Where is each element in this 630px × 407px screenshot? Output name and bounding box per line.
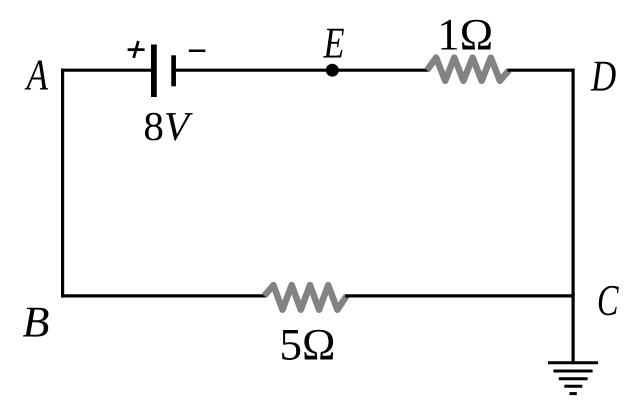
node label E (323, 29, 344, 58)
wire left side A to B (61, 69, 64, 298)
wire resistor R2 to corner C (345, 294, 574, 297)
wire bottom-left B to resistor R2 (61, 294, 266, 297)
resistor value label 5ohm (282, 330, 333, 360)
ground (548, 363, 598, 394)
wire resistor R1 to corner D (508, 69, 575, 72)
resistor value label 1ohm (441, 20, 491, 50)
battery plus sign (128, 41, 145, 58)
node label A (25, 60, 49, 89)
wire right side D to C (571, 69, 574, 296)
resistor 1ohm zigzag (427, 58, 509, 81)
node label C (599, 286, 619, 316)
resistor 5ohm zigzag (264, 285, 346, 310)
battery value label 8V (145, 113, 193, 141)
node label B (23, 308, 49, 337)
node E junction dot (326, 64, 339, 77)
battery minus sign (189, 49, 206, 52)
wire top-left segment A to battery (61, 69, 151, 72)
battery (154, 45, 174, 98)
node label D (591, 62, 616, 91)
wire battery to resistor R1 through node E (176, 69, 429, 72)
wire C down to ground (571, 294, 574, 362)
